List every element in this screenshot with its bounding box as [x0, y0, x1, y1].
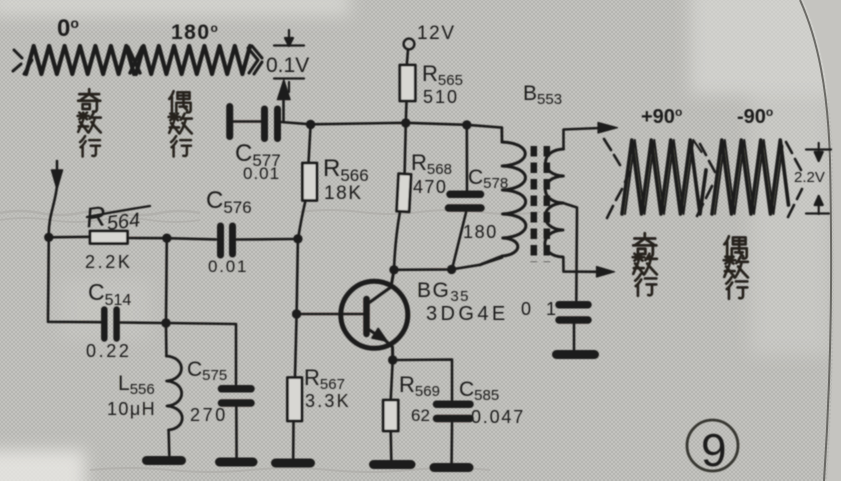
scan streaks: [0, 210, 540, 472]
junction rail-C578: [462, 120, 471, 129]
output waveform dashes left: [604, 139, 630, 218]
inductor L556: [165, 323, 168, 356]
capacitor C577 (input coupling, double-plate print): [226, 107, 233, 137]
transformer B553 secondary winding: [545, 149, 564, 257]
resistor R564: [90, 231, 128, 244]
wire R564 to node B: [128, 237, 167, 240]
right even-lines chinese column (ou shu xing): [724, 236, 748, 298]
svg-text:3.3K: 3.3K: [305, 391, 351, 411]
emitter node junction: [388, 355, 397, 364]
svg-text:12V: 12V: [417, 23, 456, 44]
transformer core dashed bars: [531, 146, 538, 262]
label R564 (struck through): [84, 196, 141, 237]
top rail wire: [311, 123, 502, 128]
capacitor C585: [437, 404, 471, 418]
upper output arrow: [598, 123, 618, 134]
figure number 9 circled: [687, 420, 738, 471]
ground for R567: [276, 459, 311, 468]
svg-text:0.1V: 0.1V: [266, 54, 309, 77]
svg-text:0.22: 0.22: [86, 341, 131, 361]
ground for 0.1 cap: [557, 350, 595, 359]
svg-text:2.2V: 2.2V: [794, 169, 825, 186]
input down arrow: [56, 161, 59, 172]
ground for L556: [147, 456, 182, 465]
output waveform dashes middle: [697, 144, 715, 216]
right odd-lines chinese column (qi shu xing): [633, 233, 657, 295]
wire C514 to node C: [120, 321, 166, 324]
svg-text:62: 62: [411, 406, 430, 425]
wire node D down to base node: [297, 239, 298, 314]
wire node A to R564: [49, 236, 90, 239]
junction collector: [389, 265, 398, 274]
capacitor 0.1: [559, 305, 588, 320]
capacitor C514: [104, 310, 116, 339]
capacitor C575: [222, 389, 252, 403]
input waveform sawtooth left group: [26, 46, 134, 74]
transistor base bar: [363, 299, 370, 334]
svg-text:9: 9: [701, 424, 727, 476]
svg-text:470: 470: [413, 177, 447, 197]
ground for C585: [434, 463, 469, 472]
svg-text:2.2K: 2.2K: [85, 252, 132, 272]
ground for R569: [374, 460, 412, 469]
svg-text:180: 180: [463, 222, 498, 242]
resistor R565: [400, 65, 416, 101]
capacitor C576: [221, 226, 233, 255]
resistor R567: [287, 378, 302, 422]
output waveform dashes right: [786, 142, 802, 217]
output waveform group 2: [712, 140, 789, 214]
junction rail-R566: [306, 120, 315, 129]
emitter lead with arrow: [368, 329, 393, 360]
svg-text:270: 270: [190, 405, 228, 425]
wire node B to C576: [167, 238, 216, 239]
wire node C to C575 branch: [166, 323, 236, 384]
0.1V measure bracket: [274, 30, 304, 92]
left odd-lines chinese column (qi shu xing): [78, 89, 101, 156]
svg-text:0.01: 0.01: [208, 257, 248, 276]
ground for C575: [220, 458, 254, 467]
wire node B to node C: [165, 238, 168, 323]
svg-text:510: 510: [423, 87, 459, 107]
svg-text:18K: 18K: [324, 183, 363, 204]
junction rail-R565: [401, 118, 410, 127]
collector rail wire: [394, 258, 502, 270]
node B junction: [162, 234, 171, 243]
junction C578-bottom: [447, 265, 456, 274]
node D junction (C576/R566): [293, 234, 302, 243]
capacitor C578: [465, 125, 468, 190]
node A junction: [44, 233, 53, 242]
waveform end dashes: [248, 46, 262, 74]
page edge: [800, 0, 831, 481]
base lead wire: [297, 313, 364, 316]
resistor R568: [405, 123, 406, 174]
node C junction: [161, 318, 170, 327]
output waveform group 1: [622, 140, 706, 214]
svg-text:10μH: 10μH: [107, 399, 156, 419]
left even-lines chinese column (ou shu xing): [169, 91, 192, 156]
12V terminal: [404, 39, 415, 50]
secondary center tap wire: [563, 203, 577, 300]
wire arrow to node A: [49, 186, 57, 236]
svg-text:3DG4E: 3DG4E: [426, 303, 509, 325]
svg-text:0.01: 0.01: [243, 164, 280, 183]
secondary bottom wire to output: [563, 257, 598, 272]
resistor R566: [309, 125, 311, 164]
waveform start dashes: [13, 50, 32, 74]
collector lead: [368, 270, 394, 304]
2.2V measure bracket: [806, 143, 831, 214]
transformer B553 primary winding: [500, 128, 503, 142]
wire node A down left branch: [48, 237, 101, 322]
up arrow at C577 node: [282, 96, 285, 121]
wire base node to R567: [295, 314, 297, 378]
wire emitter to R569: [391, 360, 393, 400]
transistor BG35 circle: [341, 281, 408, 348]
wire emitter to C585: [393, 360, 452, 400]
lower output arrow: [597, 267, 615, 278]
base node junction: [292, 309, 301, 318]
svg-text:0.047: 0.047: [471, 407, 525, 427]
resistor R569: [383, 400, 398, 431]
waveform mid crossing dashes: [128, 47, 142, 73]
input waveform sawtooth right group: [136, 46, 250, 74]
secondary top wire to output: [564, 128, 601, 149]
svg-text:0 1: 0 1: [521, 299, 561, 319]
